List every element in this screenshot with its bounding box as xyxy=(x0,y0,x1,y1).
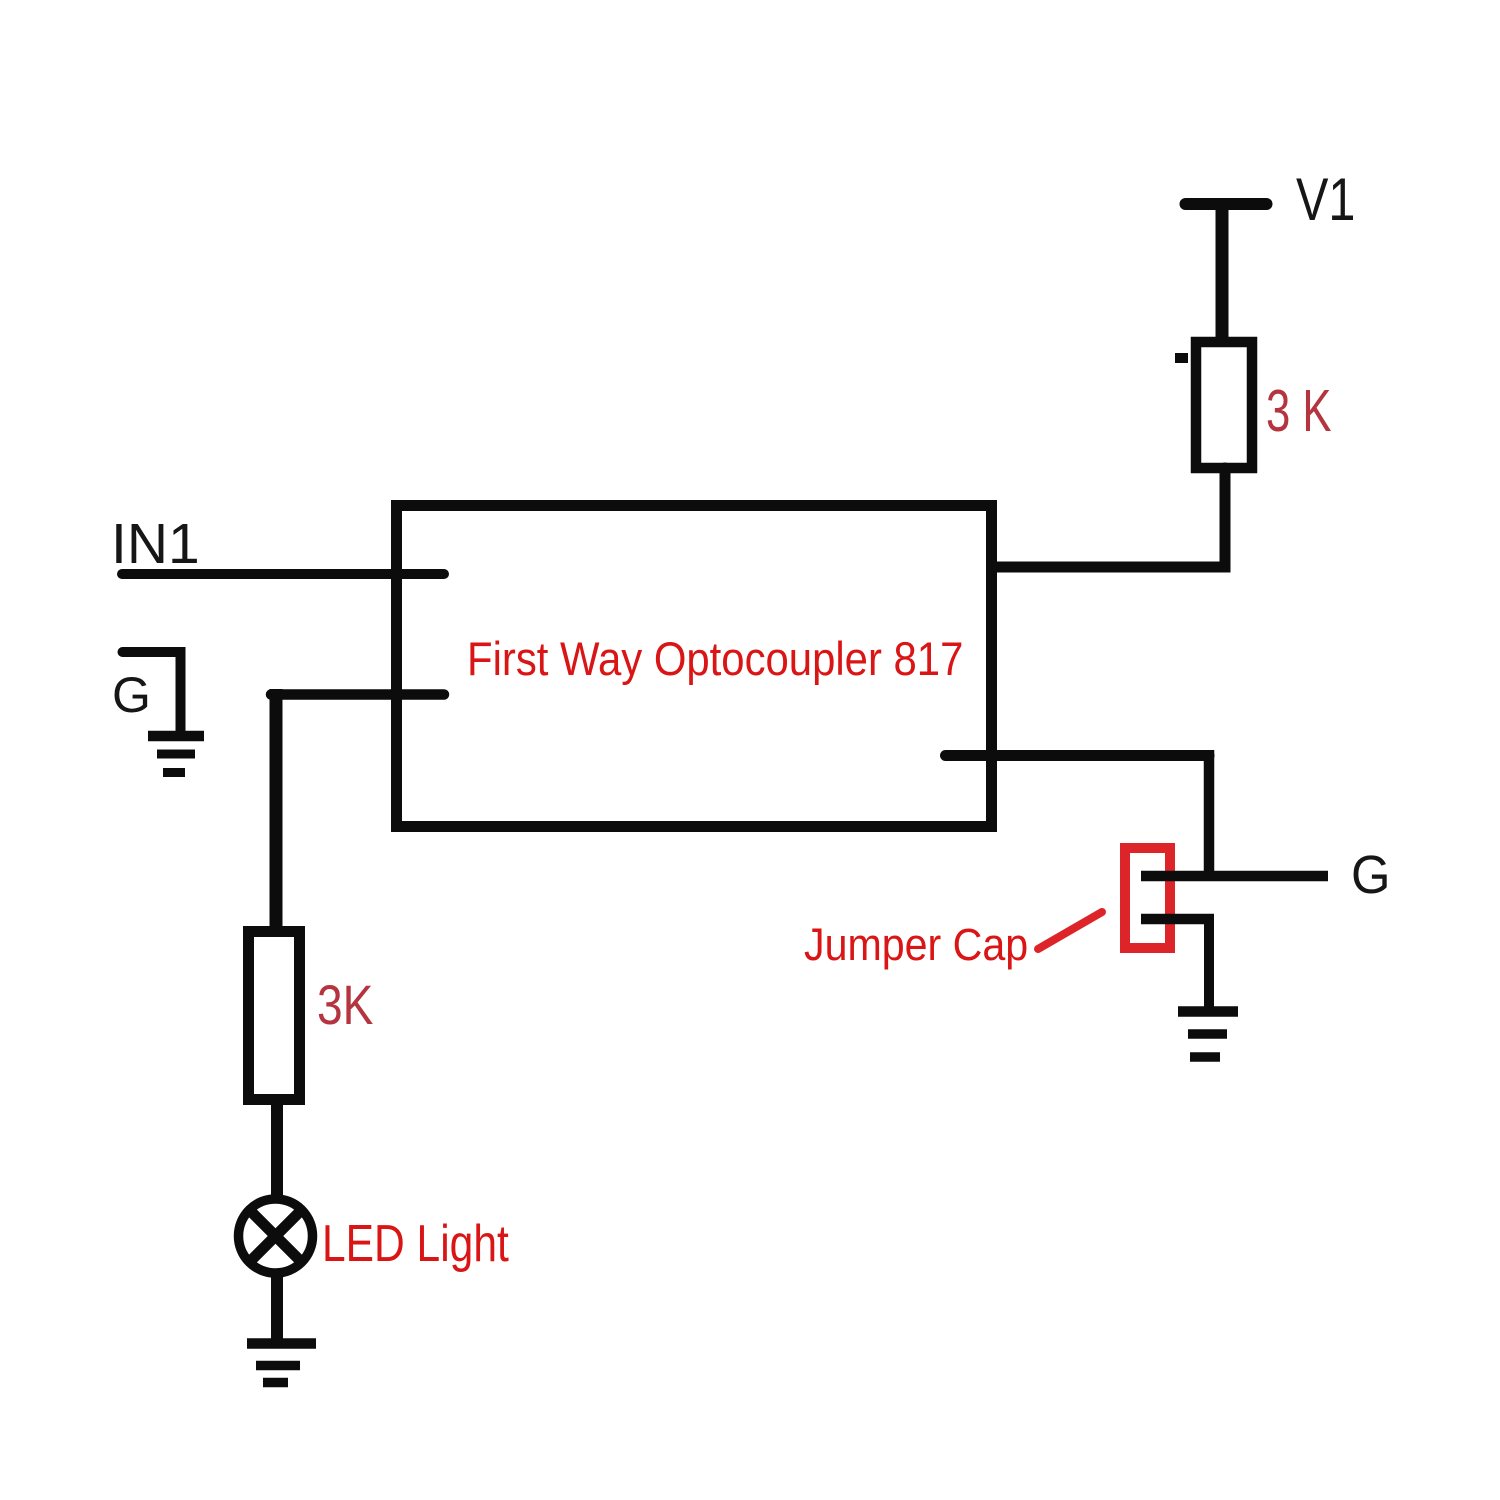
svg-text:IN1: IN1 xyxy=(111,512,200,576)
wire U1 pin 2 to R2 xyxy=(271,689,444,700)
power V1 bar xyxy=(1186,198,1267,210)
wire LED to ground xyxy=(271,1270,283,1343)
wire down left branch xyxy=(270,689,283,926)
wire U1 pin 3 right xyxy=(946,750,1210,761)
wire down to G net xyxy=(1204,750,1215,881)
jumper upper stub wire to G xyxy=(1141,871,1328,882)
resistor R1 xyxy=(1196,342,1252,468)
tick mark left of R1 xyxy=(1175,353,1188,363)
wire V1 to R1 xyxy=(1216,205,1229,342)
ground below LED xyxy=(247,1344,316,1383)
svg-text:V1: V1 xyxy=(1296,166,1355,233)
node G left stub wire xyxy=(123,652,181,734)
op-to body U1 xyxy=(397,506,992,827)
wire down to right ground xyxy=(1204,914,1214,1011)
svg-text:3K: 3K xyxy=(317,974,373,1036)
jumper lower stub wire to ground xyxy=(1141,914,1214,925)
svg-text:3 K: 3 K xyxy=(1266,378,1332,444)
ground left xyxy=(148,736,204,773)
svg-text:Jumper Cap: Jumper Cap xyxy=(804,920,1028,970)
jumper cap J1 xyxy=(1125,848,1170,948)
svg-text:G: G xyxy=(1351,846,1390,906)
wire IN1 to U1 pin 1 xyxy=(122,569,444,579)
svg-text:LED Light: LED Light xyxy=(322,1215,509,1273)
wire R2 to LED xyxy=(271,1100,283,1205)
resistor R2 xyxy=(249,932,300,1100)
wire R1 to U1 pin 4 xyxy=(942,468,1225,567)
svg-text:G: G xyxy=(112,667,151,723)
svg-text:First Way Optocoupler 817: First Way Optocoupler 817 xyxy=(467,634,963,686)
pointer line to jumper xyxy=(1038,912,1102,949)
LED D1 xyxy=(239,1199,313,1273)
ground right xyxy=(1178,1012,1238,1058)
